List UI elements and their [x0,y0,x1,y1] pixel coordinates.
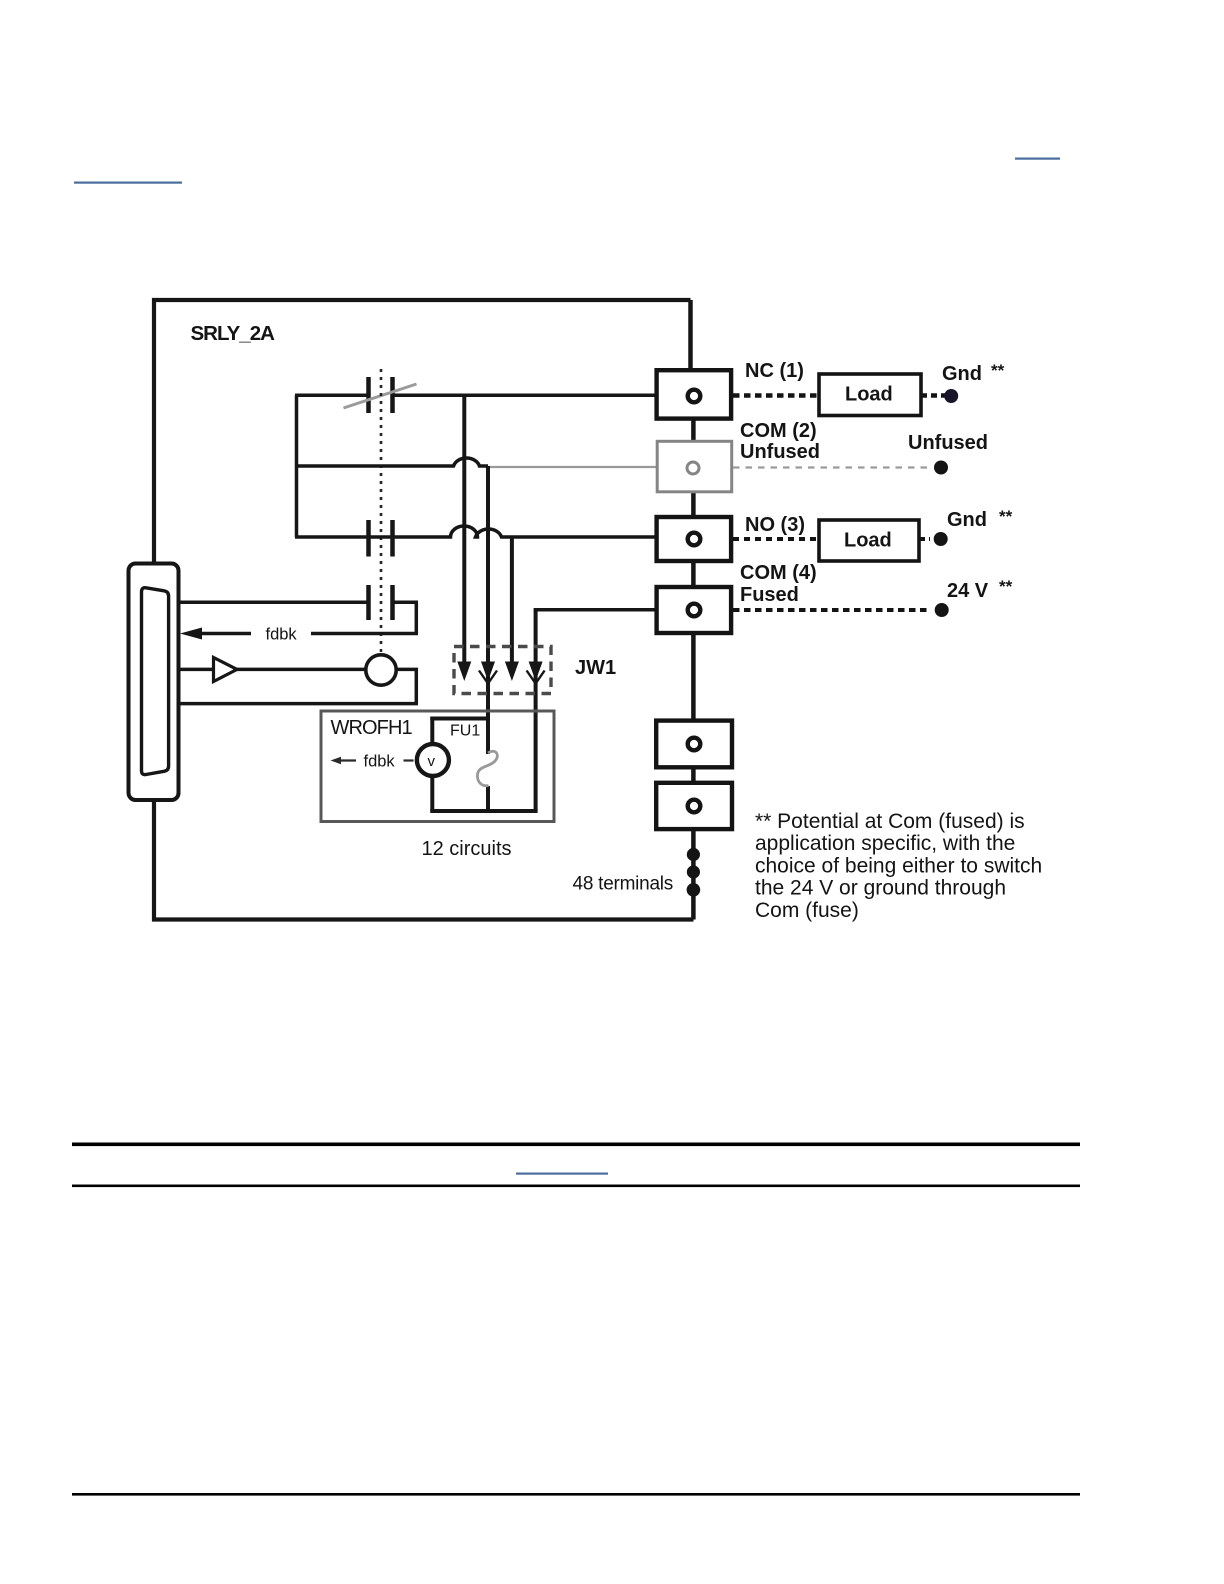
coil actuator circle [366,655,396,685]
label Fused [740,584,799,606]
label NC (1) [745,360,804,382]
svg-text:application specific, with the: application specific, with the [755,832,1015,855]
svg-text:Load: Load [845,384,893,406]
terminal continuation dots [687,848,701,897]
svg-text:NC (1): NC (1) [745,360,804,382]
svg-text:**: ** [991,361,1005,380]
jumper wire 4 with arrow (COM fused, continues to fuse bottom) [527,610,545,811]
svg-text:Load: Load [844,530,892,552]
dashed wire Load2 to Gnd node [919,537,930,541]
footer thin rule [72,1185,1080,1188]
contact K1B NO bars [369,520,393,557]
svg-text:24 V: 24 V [947,580,989,602]
svg-text:fdbk: fdbk [364,753,396,771]
label Unfused (left) [740,441,820,463]
svg-text:Unfused: Unfused [740,441,820,463]
label fdbk (inside WROFH1) [364,753,396,771]
mechanical linkage dotted line [380,369,383,654]
label fdbk (upper) [266,626,298,644]
svg-text:WROFH1: WROFH1 [331,717,413,739]
label Gnd ** (row 3) [947,507,1013,531]
load box 1 [819,374,921,416]
jumper wire 3 with arrow (from NO row) [505,537,519,681]
svg-text:12 circuits: 12 circuits [422,838,512,860]
dashed field wire T1 to Load1 [733,393,819,398]
hyperlink underline top-left [74,182,182,184]
svg-text:COM (4): COM (4) [740,562,817,584]
svg-text:Unfused: Unfused [908,432,988,454]
svg-text:SRLY_2A: SRLY_2A [191,322,276,345]
buffer amplifier loop top wire [178,668,366,672]
node Unfused [934,461,948,475]
dashed gray wire T2 to Unfused node [733,466,930,468]
terminal T3 NO(3) block [657,517,732,561]
load box 2 [819,520,919,561]
label 12 circuits [422,838,512,860]
svg-text:FU1: FU1 [450,723,480,740]
node 24 V [935,603,949,617]
dashed field wire T3 to Load2 [733,537,819,541]
wire NC row (to terminal 1) [295,394,659,398]
label 24 V ** [947,577,1013,602]
svg-text:Fused: Fused [740,584,799,606]
jumper block JW1 dashed box [454,647,551,694]
node Gnd (row 1) [944,389,958,403]
buffer loop right and bottom wires [178,669,418,703]
module box SRLY_2A [154,300,694,920]
terminal T2 COM(2) unfused block (gray) [657,441,732,492]
svg-text:COM (2): COM (2) [740,420,817,442]
fdbk return wire with arrow into connector [180,628,418,640]
fuse module WROFH1 box [321,711,554,822]
terminal T1 NC(1) block [657,370,732,418]
fuse FU1 squiggle [477,751,497,786]
label 48 terminals [573,874,674,895]
label NO (3) [745,514,805,536]
fdbk arrow inside WROFH1 [331,757,414,764]
label FU1 [450,723,480,740]
footer thick rule [72,1143,1080,1147]
bottom page rule [72,1493,1080,1496]
label Gnd ** (row 1) [942,361,1005,385]
fuse circuit wires [430,717,537,813]
label JW1 [575,657,616,679]
wire feedback contact row [178,602,418,633]
buffer amplifier triangle [214,658,238,682]
terminal T4 COM(4) fused block [657,587,732,633]
label Unfused (node) [908,432,988,454]
dashed wire Load1 to Gnd node [921,393,947,398]
note text ** Potential ... [755,810,1042,922]
label COM (4) [740,562,817,584]
jumper wire 2 with arrow (COM unfused, continues to fuse) [479,466,497,718]
label WROFH1 [331,717,413,739]
label SRLY_2A [191,322,276,345]
svg-text:**: ** [999,577,1013,596]
connector P1 inner D-shape [142,588,169,775]
svg-text:JW1: JW1 [575,657,616,679]
voltmeter V circle [417,744,449,776]
footer hyperlink underline [516,1173,608,1175]
node Gnd (row 3) [934,532,948,546]
svg-text:NO (3): NO (3) [745,514,805,536]
wire COM(2) row black part with hop [295,458,488,466]
svg-text:** Potential at Com (fused) is: ** Potential at Com (fused) is [755,810,1025,833]
svg-text:Gnd: Gnd [942,363,982,385]
svg-text:choice of being either to swit: choice of being either to switch [755,854,1042,877]
wire left bus vertical (contact common) [295,395,299,537]
NC slash [344,384,417,408]
contact K1A NC bars [369,377,393,413]
svg-text:Com (fuse): Com (fuse) [755,899,859,922]
wire COM(2) gray continuation to terminal 2 [489,466,659,468]
svg-text:v: v [428,753,436,770]
wire COM(4) fused row to terminal 4 [534,608,659,612]
hyperlink underline top-right [1015,158,1060,160]
terminal T5 block [656,721,732,768]
svg-text:48 terminals: 48 terminals [573,874,674,895]
svg-text:**: ** [999,507,1013,526]
contact K1C feedback bars [369,585,393,620]
wire NO(3) row with two hops [295,526,659,537]
label COM (2) [740,420,817,442]
terminal T6 block [656,783,732,829]
svg-text:the 24 V or ground through: the 24 V or ground through [755,877,1006,900]
dashed field wire T4 to 24V node [733,608,930,612]
svg-text:Gnd: Gnd [947,509,987,531]
jumper wire 1 with arrow (from NC row) [457,395,471,681]
connector P1 outer body [129,564,179,801]
svg-text:fdbk: fdbk [266,626,298,644]
